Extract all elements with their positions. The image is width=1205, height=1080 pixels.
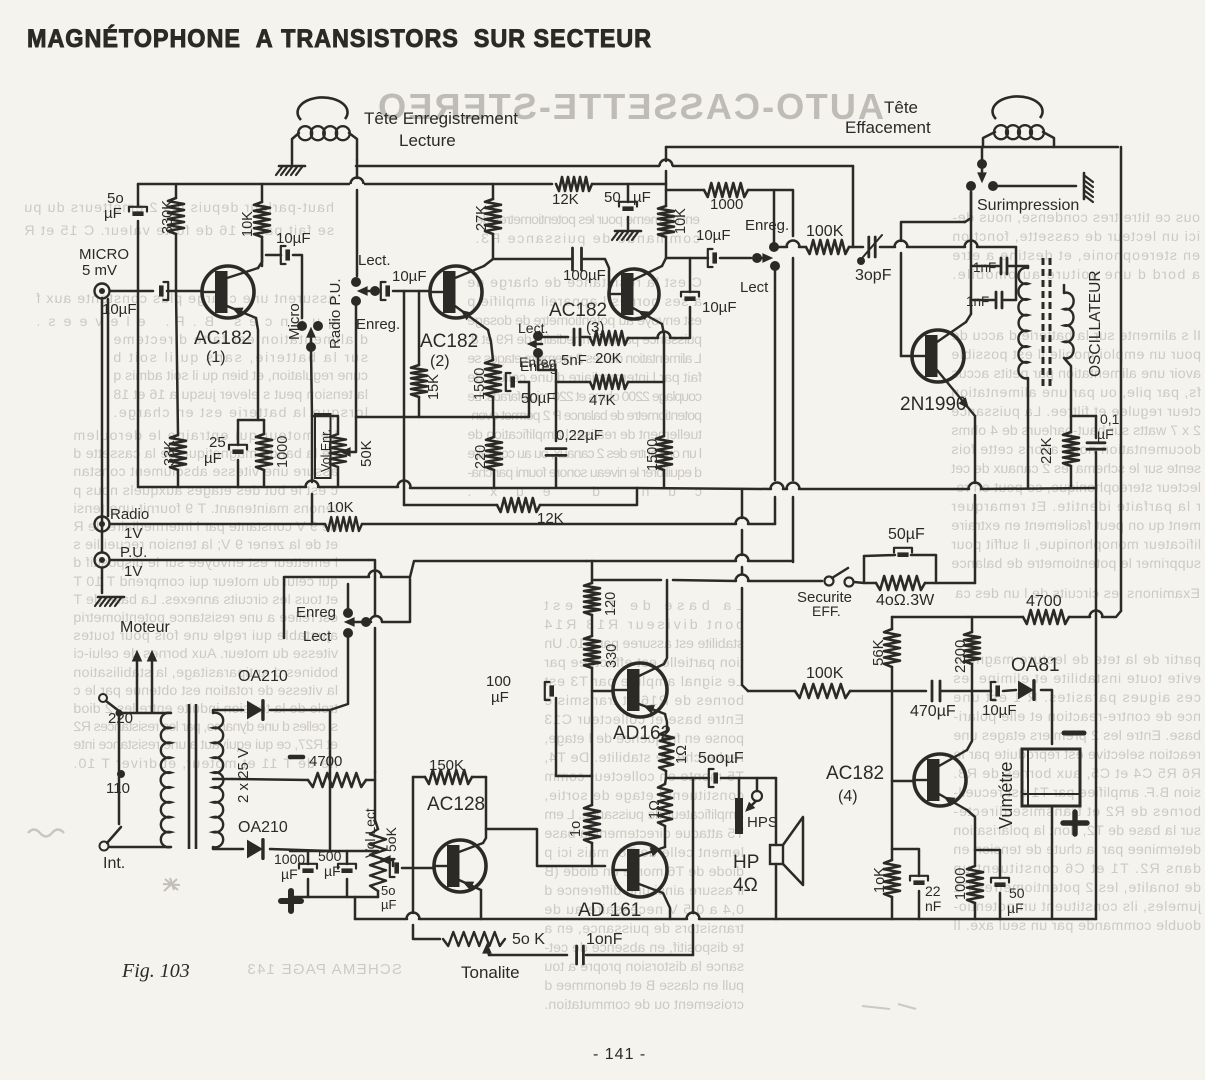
svg-text:20K: 20K xyxy=(595,350,622,367)
svg-text:27K: 27K xyxy=(474,205,490,231)
wire 1nF b left xyxy=(971,299,994,302)
resistor 20K xyxy=(590,331,628,345)
wire 50uF meter bottom xyxy=(999,893,1002,919)
capacitor 30pF xyxy=(863,235,882,257)
(ghost bleed-through text mid col lower) xyxy=(544,598,744,1013)
svg-text:partir de la tete de lecture m: partir de la tete de lecture magneti- xyxy=(953,652,1201,668)
svg-text:la tension peut s elever jusqu: la tension peut s elever jusqu a 16 et 1… xyxy=(113,387,368,403)
label 12K fb xyxy=(537,510,564,527)
resistor 1500 emitter T3 xyxy=(656,436,672,470)
wire rail T3 left xyxy=(138,183,349,186)
wire 50uF meter top xyxy=(975,850,1000,878)
label 33K xyxy=(162,440,178,466)
capacitor 22nF xyxy=(910,876,928,885)
capacitor 5nF xyxy=(574,329,580,345)
resistor 12K (rail T3) xyxy=(556,177,592,191)
svg-text:AC182: AC182 xyxy=(549,300,607,321)
svg-text:1000: 1000 xyxy=(953,868,969,900)
svg-text:25: 25 xyxy=(209,434,226,451)
svg-text:1Ω: 1Ω xyxy=(647,800,663,819)
wire micro shield down xyxy=(101,298,104,552)
svg-text:1000: 1000 xyxy=(274,851,305,867)
svg-text:4oΩ.3W: 4oΩ.3W xyxy=(876,592,935,609)
label 40ohm xyxy=(876,592,935,609)
label 0,22uF xyxy=(556,427,603,444)
wire rail T3 hop over record-head lead xyxy=(351,178,553,185)
svg-text:Enreg: Enreg xyxy=(296,604,336,621)
label 10 ohm xyxy=(568,821,584,837)
ground xyxy=(276,166,305,175)
label 10K m2 xyxy=(327,499,354,516)
(ghost mirrored headline) xyxy=(376,86,884,127)
svg-text:5ooµF: 5ooµF xyxy=(698,750,744,767)
wire cap to base T2 xyxy=(393,290,430,293)
wire feedback 12K riser xyxy=(403,291,406,505)
resistor 22K xyxy=(1063,432,1079,466)
switch 220V tap xyxy=(99,694,123,717)
wire to Int switch xyxy=(118,777,121,824)
wire emitter AC182(4) xyxy=(967,810,975,850)
capacitor 50&#181;F Enreg xyxy=(506,373,515,391)
wire collector T1 xyxy=(258,240,262,268)
svg-text:OA210: OA210 xyxy=(238,819,288,836)
resistor 1500 emitter T2 xyxy=(485,360,501,397)
wire 0.1uF bottom xyxy=(1095,452,1098,488)
label 330 xyxy=(604,644,620,668)
wire OA81 to meter xyxy=(1041,690,1052,744)
wire 50uF to AC128 base xyxy=(402,867,434,870)
wire 22nF top xyxy=(892,849,919,876)
wire 220 top xyxy=(493,417,496,437)
label Surimpression xyxy=(977,197,1079,214)
resistor 15K xyxy=(411,365,427,397)
label Lect. top xyxy=(358,252,391,269)
label Enreg. top xyxy=(356,316,400,333)
svg-text:33K: 33K xyxy=(162,440,178,466)
label 1nF a xyxy=(973,260,996,275)
wire erase riser up xyxy=(974,495,977,583)
wire 4700 to rail B xyxy=(1069,611,1121,618)
wire 12K feedback left xyxy=(404,504,497,507)
wire 10K top lead xyxy=(261,184,264,202)
svg-text:1onF: 1onF xyxy=(586,931,623,948)
svg-text:1nF: 1nF xyxy=(973,260,996,275)
capacitor 100&#181;F coupling xyxy=(573,248,582,270)
wire base AC182(4) xyxy=(892,780,914,783)
label Securite EFF. xyxy=(797,589,852,619)
svg-text:r la parfaite identite. Et rem: r la parfaite identite. Et remarquer xyxy=(951,499,1201,515)
wire 10uF to collector wire xyxy=(689,258,692,292)
label AD162 xyxy=(613,723,671,744)
svg-text:avoir une alimentation par pet: avoir une alimentation par petits accus xyxy=(951,366,1201,382)
label 1 ohm b xyxy=(647,800,663,819)
label 50K tone xyxy=(512,931,545,948)
wire riser to lower switch xyxy=(369,560,375,616)
wire 10K to collector T1 xyxy=(261,237,264,266)
wire rail M2 xyxy=(110,517,775,531)
resistor 27K xyxy=(485,199,501,234)
svg-text:cteur regulee et filtree. La p: cteur regulee et filtree. La puissance xyxy=(951,404,1201,420)
label 2N1990 xyxy=(900,394,967,415)
transistor AC182 (3) xyxy=(609,266,662,324)
wire bypass top left xyxy=(864,555,895,556)
label AC182 (4) xyxy=(826,763,884,805)
label 50uF enreg xyxy=(521,390,556,407)
svg-text:c est le but des etages auxque: c est le but des etages auxquels nous p xyxy=(73,483,338,499)
resistor 100K osc drive xyxy=(806,240,849,254)
label Lect. eq xyxy=(518,320,548,336)
svg-text:1V: 1V xyxy=(124,563,142,580)
svg-text:Lect.: Lect. xyxy=(358,252,391,269)
label AC128 xyxy=(427,794,485,815)
svg-text:Tête Enregistrement: Tête Enregistrement xyxy=(364,109,518,128)
svg-text:lificateur monophonique, il su: lificateur monophonique, il suffit pour xyxy=(951,537,1201,553)
capacitor 25&#181;F xyxy=(229,445,247,454)
svg-text:OSCILLATEUR: OSCILLATEUR xyxy=(1087,270,1104,377)
wire to surimpression contact xyxy=(965,192,971,222)
wire feedback riser xyxy=(692,778,695,913)
wire 150K left xyxy=(413,776,425,779)
wire 1ohm b top xyxy=(665,778,666,784)
svg-text:pour un emploi mobile il est p: pour un emploi mobile il est possible xyxy=(951,347,1201,363)
label 100uF xyxy=(563,267,606,284)
resistor 56K xyxy=(884,629,900,667)
(faint corner mark) xyxy=(862,1004,916,1009)
svg-text:AC182: AC182 xyxy=(420,331,478,352)
wire 0.1uF top xyxy=(1095,416,1098,438)
svg-text:22: 22 xyxy=(925,883,941,899)
resistor 1000 emitter T1 xyxy=(256,434,272,470)
(ghost bleed-through text right col b) xyxy=(951,328,1201,572)
svg-text:Radio P.U.: Radio P.U. xyxy=(327,278,344,349)
wire diode a out xyxy=(270,709,330,712)
svg-text:0,1: 0,1 xyxy=(1100,411,1120,427)
svg-text:(1): (1) xyxy=(206,349,226,366)
wire emitter T3 down xyxy=(662,324,664,436)
wire micro shield down b xyxy=(107,299,110,516)
wire 1000 bottom lead xyxy=(263,470,266,487)
label 1000 rail xyxy=(710,196,743,213)
label 1000 meter xyxy=(953,868,969,900)
wire to 0.22uF xyxy=(555,382,558,441)
label 27K xyxy=(474,205,490,231)
label 2200 xyxy=(952,640,969,673)
svg-text:µF: µF xyxy=(204,450,222,467)
label 50K volenr xyxy=(358,440,375,467)
speaker HP 4ohm xyxy=(770,778,803,919)
meter Vumetre xyxy=(1022,749,1080,806)
svg-text:HP: HP xyxy=(733,852,759,873)
wire 20K hop over emitter lead xyxy=(628,307,690,338)
wire erase riser to emitter xyxy=(974,416,977,483)
label AC182 (2) xyxy=(420,331,478,370)
potentiometer Vol.Enr. 50K xyxy=(315,414,350,487)
wire 4700 to riser xyxy=(366,779,375,782)
wire Enreg line to M2b xyxy=(792,497,795,562)
svg-text:5o: 5o xyxy=(381,883,395,898)
svg-text:te dispositif, en absence de c: te dispositif, en absence de cet- xyxy=(544,940,744,956)
switch Micro / Radio P.U. xyxy=(297,321,323,416)
wire tap to 4700 xyxy=(232,779,308,780)
resistor 10K supply xyxy=(658,206,674,237)
capacitor 500&#181;F output xyxy=(709,769,718,787)
svg-text:Enreg.: Enreg. xyxy=(356,316,400,333)
svg-text:puissance par l intermediaire: puissance par l intermediaire de R9 et 8… xyxy=(467,332,702,348)
wire pot bottom xyxy=(377,891,380,897)
transistor AC182 (2) xyxy=(430,266,488,330)
svg-text:OA81: OA81 xyxy=(1011,655,1060,676)
label 1000uF xyxy=(274,851,305,882)
wire 22nF bottom xyxy=(918,891,921,919)
label Radio P.U. xyxy=(327,278,344,349)
svg-text:couplage 2200 ohms et 220 micr: couplage 2200 ohms et 220 microfarads. L… xyxy=(467,389,702,405)
svg-text:10µF: 10µF xyxy=(276,230,311,247)
label Enreg eq xyxy=(519,354,556,370)
label Enreg cap xyxy=(520,358,557,374)
svg-text:Vol.Enr.: Vol.Enr. xyxy=(319,429,333,472)
wire 1000 to Enreg line xyxy=(748,190,793,236)
switch Int. xyxy=(100,827,122,851)
wire riser to 1nF a xyxy=(1015,247,1018,266)
svg-text:Vumétre: Vumétre xyxy=(996,762,1016,829)
(ghost bleed-through text mid col) xyxy=(467,275,702,500)
svg-text:OA210: OA210 xyxy=(238,668,288,685)
(ghost bleed-through text mid col top) xyxy=(475,212,700,247)
wire 150K left riser xyxy=(412,777,415,913)
svg-text:sur la batterie, sans qu il so: sur la batterie, sans qu il soit b xyxy=(113,350,368,366)
label 330K xyxy=(160,200,176,234)
(ghost bleed-through text left col) xyxy=(113,332,368,421)
svg-text:Moteur: Moteur xyxy=(120,619,170,636)
wire P.U. to ground xyxy=(101,568,104,593)
label 20K xyxy=(595,350,622,367)
label 22nF xyxy=(925,883,941,914)
svg-text:base. Entre les 2 premiers eta: base. Entre les 2 premiers etages une xyxy=(953,728,1201,744)
capacitor 0,1&#181;F xyxy=(1087,443,1105,449)
label HPS xyxy=(747,814,778,831)
diode OA210 b xyxy=(247,840,263,859)
wire 100K left xyxy=(748,690,795,693)
svg-text:µF: µF xyxy=(324,863,341,879)
svg-text:transistors de puissance, en a: transistors de puissance, en a xyxy=(544,921,744,937)
svg-text:1o: 1o xyxy=(568,821,584,837)
svg-text:50µF: 50µF xyxy=(888,526,925,543)
label OA210 a xyxy=(238,668,288,685)
label Tete Effacement xyxy=(845,98,931,137)
svg-text:100K: 100K xyxy=(806,223,844,240)
svg-text:sance la distorsion propre a t: sance la distorsion propre a tou xyxy=(544,959,744,975)
capacitor 100&#181;F divider xyxy=(545,682,554,700)
wire 1000 meter top xyxy=(974,850,977,866)
svg-text:pull en classe B et denommee d: pull en classe B et denommee d xyxy=(544,978,744,994)
wire record head to switch xyxy=(356,160,359,178)
resistor 1 ohm b xyxy=(658,784,672,826)
transistor 2N1990 xyxy=(912,322,975,416)
wire to 500uF xyxy=(693,777,709,780)
label 10K meter xyxy=(872,867,888,893)
wire AD162 emitter xyxy=(665,714,667,731)
wire base divider riser xyxy=(891,691,894,860)
wire 500uF bottom xyxy=(346,879,349,897)
wire 100K riser bottom xyxy=(742,588,748,691)
wire 100K riser mid2 xyxy=(741,567,744,574)
label 50uF left xyxy=(104,190,124,222)
wire pole line down xyxy=(311,416,314,482)
svg-text:Effacement: Effacement xyxy=(845,118,931,137)
label 10K t1 xyxy=(240,211,256,237)
resistor 4700 osc xyxy=(1023,610,1069,624)
label 10uF a xyxy=(276,230,311,247)
wire Enreg line down xyxy=(792,258,795,480)
potentiometer Tonalite 50K xyxy=(443,932,505,955)
resistor 330K xyxy=(168,198,184,234)
svg-text:Fig. 103: Fig. 103 xyxy=(121,960,190,982)
wire 1ohm a bottom xyxy=(665,771,668,778)
svg-text:croisement ou de commutation.: croisement ou de commutation. xyxy=(544,997,744,1013)
capacitor 500&#181;F xyxy=(338,864,356,873)
svg-text:150K: 150K xyxy=(429,757,464,774)
label 100K a xyxy=(806,223,844,240)
wire Lect line to M2 xyxy=(774,497,777,524)
wire collector 2N1990 xyxy=(966,314,971,322)
svg-text:Il s alimente sur la batterie: Il s alimente sur la batterie d accu de xyxy=(951,328,1201,344)
wire 10 ohm bottom xyxy=(591,843,594,866)
svg-text:µF: µF xyxy=(1097,426,1114,442)
wire 50uF lead xyxy=(519,381,529,384)
(ghost bleed-through text left top2) xyxy=(36,291,336,330)
wire 10uF to Micro contact xyxy=(293,255,302,318)
wire 47K left xyxy=(556,381,590,384)
svg-text:fs, par pile, ou par une alime: fs, par pile, ou par une alimentation xyxy=(951,385,1201,401)
transistor AC182 (4) xyxy=(914,750,967,810)
connector Radio input xyxy=(95,517,110,532)
wire 150K right xyxy=(472,776,486,779)
svg-text:µF: µF xyxy=(104,205,122,222)
svg-text:Lect: Lect xyxy=(740,279,769,296)
svg-text:100µF: 100µF xyxy=(563,267,606,284)
wire 27K to collector node xyxy=(492,234,495,259)
(faint margin squiggle) xyxy=(28,830,64,837)
label 4700 b xyxy=(1026,593,1062,610)
capacitor 0,22&#181;F xyxy=(546,449,566,456)
svg-text:10µF: 10µF xyxy=(702,299,737,316)
svg-text:et R27, ce qui equivaut a une: et R27, ce qui equivaut a une resistance… xyxy=(73,737,338,753)
svg-text:120: 120 xyxy=(603,592,619,616)
page number xyxy=(593,1046,646,1063)
label 10nF xyxy=(586,931,623,948)
transistor AC182 (1) xyxy=(202,266,258,318)
wire pole line to M2 xyxy=(311,494,314,524)
wire rail T3 right xyxy=(592,183,666,186)
svg-text:Surimpression: Surimpression xyxy=(977,197,1079,214)
wire emitter T2 xyxy=(488,330,493,360)
label 120 xyxy=(603,592,619,616)
svg-text:la vitesse de rotation est obt: la vitesse de rotation est obtenue par l… xyxy=(73,683,338,699)
svg-text:Enreg.: Enreg. xyxy=(745,217,789,234)
svg-text:vitesse du moteur. Aux bornes: vitesse du moteur. Aux bornes de celui-c… xyxy=(73,646,338,662)
label meter plus xyxy=(1063,812,1087,834)
wire rail T2 hop over 10K lead xyxy=(660,160,854,167)
label 500uF out xyxy=(698,750,744,767)
svg-text:0,22µF: 0,22µF xyxy=(556,427,603,444)
wire erase supply left xyxy=(592,579,661,582)
wire 2200 bottom xyxy=(971,664,974,691)
wire 10K to collector T3 xyxy=(665,237,668,258)
label 25uF xyxy=(204,434,226,467)
switch Lect./Enreg. (input of stage 2) xyxy=(351,277,380,417)
label Vumetre xyxy=(996,762,1016,829)
capacitor 50&#181;F bypass xyxy=(894,548,912,557)
svg-text:220: 220 xyxy=(473,445,489,469)
wire base feed top xyxy=(901,222,965,241)
transistor AD162 xyxy=(613,663,667,717)
transistor AC128 xyxy=(434,840,486,892)
wire 10nF to feedback riser xyxy=(586,954,693,957)
svg-text:Tête: Tête xyxy=(884,98,918,117)
label Lect motor xyxy=(303,628,332,645)
label 10uF micro xyxy=(102,301,137,318)
wire rail M3 (bottom bus) xyxy=(355,913,1096,920)
wire osc right top stub xyxy=(1063,285,1066,293)
label Micro xyxy=(286,303,303,340)
label OSCILLATEUR xyxy=(1087,270,1104,377)
svg-text:0,4 a 0,5 V necessaire au de: 0,4 a 0,5 V necessaire au de xyxy=(544,902,744,918)
label Vol.Enr. xyxy=(319,429,333,472)
wire 1nF a left xyxy=(971,265,999,268)
label 50uF byp xyxy=(888,526,925,543)
svg-text:Examinons les circuits de l un: Examinons les circuits de l un des ca xyxy=(955,586,1200,602)
label Tonalite xyxy=(461,963,520,982)
ground xyxy=(1084,173,1093,202)
capacitor 10&#181;F micro coupling xyxy=(159,282,168,300)
wire osc right bottom xyxy=(1064,358,1071,416)
svg-text:ici un lecteur de cassette, fo: ici un lecteur de cassette, fonction xyxy=(952,229,1200,245)
transformer oscillator xyxy=(1018,258,1073,386)
wire to 5nF xyxy=(542,336,568,339)
potentiometer Vol.Lect 50K xyxy=(370,829,393,891)
svg-text:5nF: 5nF xyxy=(561,352,587,369)
wire rail M1 (mid supply bus) xyxy=(139,481,1096,489)
connector MICRO input xyxy=(95,284,110,299)
resistor 220 emitter xyxy=(486,437,502,470)
wire collector AC182(4) xyxy=(967,691,972,750)
svg-text:AC182: AC182 xyxy=(194,328,252,349)
wire Enreg contact to 47K xyxy=(538,356,556,382)
label AC182 (3) xyxy=(549,300,607,336)
svg-text:ment qu on peut facilement en: ment qu on peut facilement en extraire xyxy=(951,518,1201,534)
wire 40ohm right xyxy=(925,582,975,585)
wire collector T2 to 100uF xyxy=(484,259,571,266)
wire 120 to 330 xyxy=(591,615,594,636)
svg-text:nF: nF xyxy=(925,898,941,914)
svg-text:4700: 4700 xyxy=(1026,593,1062,610)
svg-text:5 mV: 5 mV xyxy=(82,262,117,279)
wire diode b out xyxy=(270,849,330,851)
label 110 xyxy=(106,780,130,797)
svg-text:1nF: 1nF xyxy=(966,294,989,309)
label 50uF lect xyxy=(381,883,396,912)
wire 1500 t3 bottom xyxy=(663,470,666,487)
wire 22K top lead xyxy=(1070,416,1073,432)
svg-text:Lect.: Lect. xyxy=(518,320,548,336)
svg-text:double commande par un seul ax: double commande par un seul axe. Il xyxy=(953,918,1201,934)
svg-text:Le moteur qui entraine le dero: Le moteur qui entraine le deroulem xyxy=(73,428,338,444)
svg-text:SCHEMA PAGE 143: SCHEMA PAGE 143 xyxy=(247,961,402,978)
svg-text:Micro: Micro xyxy=(286,303,303,340)
wire supply riser (T3 tap) xyxy=(665,171,668,206)
label minus supply xyxy=(290,755,303,760)
resistor 4700 supply xyxy=(308,773,366,787)
